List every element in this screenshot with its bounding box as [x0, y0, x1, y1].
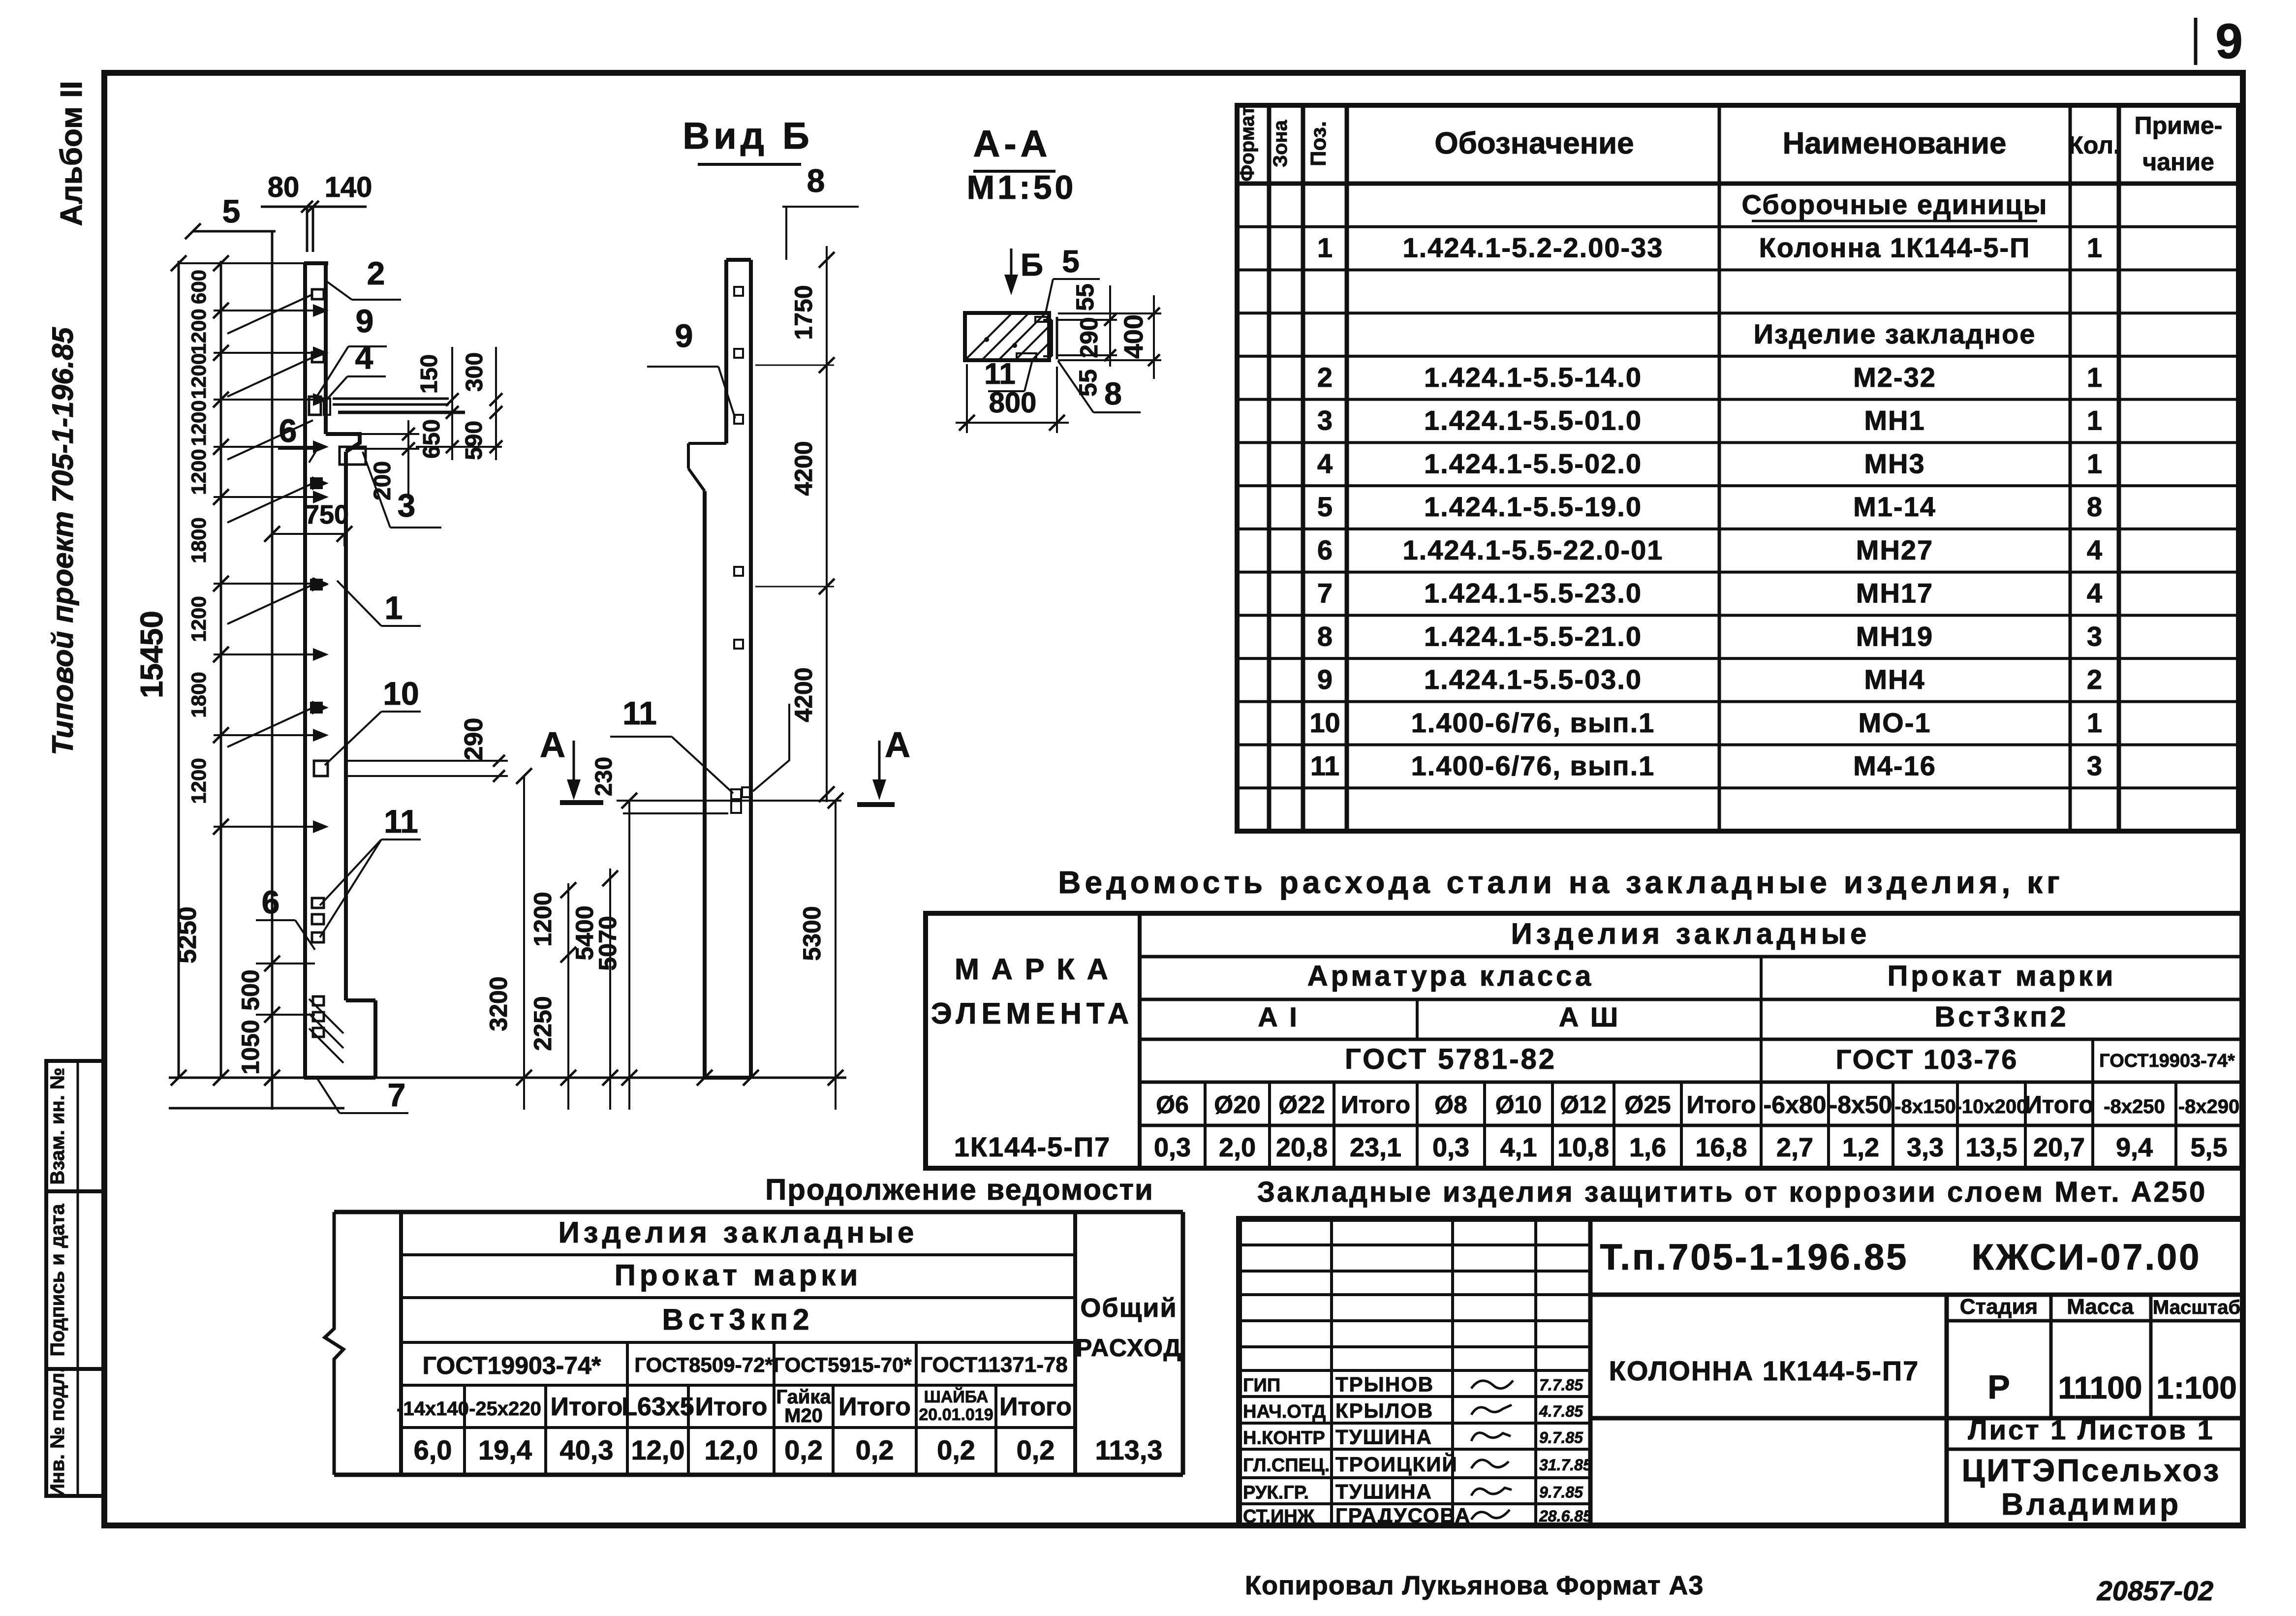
svg-text:5,5: 5,5 [2190, 1133, 2227, 1162]
svg-text:чание: чание [2142, 148, 2214, 176]
svg-text:20857-02: 20857-02 [2097, 1575, 2214, 1606]
svg-text:590: 590 [461, 421, 487, 460]
svg-text:Итого: Итого [1341, 1091, 1410, 1119]
svg-text:1800: 1800 [187, 517, 210, 563]
svg-text:1К144-5-П7: 1К144-5-П7 [954, 1131, 1111, 1162]
svg-text:9: 9 [675, 317, 693, 354]
svg-text:11: 11 [1310, 750, 1339, 781]
svg-text:3: 3 [1317, 405, 1333, 436]
svg-text:4200: 4200 [790, 667, 817, 722]
svg-text:Изделия закладные: Изделия закладные [1511, 917, 1871, 950]
svg-text:М2-32: М2-32 [1853, 362, 1936, 393]
svg-text:Итого: Итого [695, 1393, 768, 1421]
svg-text:МН3: МН3 [1864, 448, 1925, 479]
svg-text:ТУШИНА: ТУШИНА [1335, 1480, 1432, 1503]
svg-text:Прокат марки: Прокат марки [1888, 960, 2116, 992]
svg-text:Изделие закладное: Изделие закладное [1754, 318, 2036, 349]
svg-text:5300: 5300 [798, 906, 826, 961]
svg-text:7.7.85: 7.7.85 [1539, 1376, 1583, 1394]
svg-text:Копировал Лукьянова Ф: Копировал Лукьянова Формат А3 [1245, 1571, 1704, 1600]
svg-text:КОЛОННА 1К144-5-П7: КОЛОННА 1К144-5-П7 [1609, 1355, 1920, 1386]
svg-text:1.424.1-5.5-03.0: 1.424.1-5.5-03.0 [1424, 664, 1642, 695]
svg-text:800: 800 [989, 387, 1037, 419]
svg-text:2,7: 2,7 [1776, 1133, 1813, 1162]
svg-text:Ø12: Ø12 [1560, 1091, 1607, 1119]
svg-text:Т.п.705-1-196.85: Т.п.705-1-196.85 [1600, 1237, 1909, 1277]
svg-text:4: 4 [2087, 578, 2102, 609]
svg-text:19,4: 19,4 [478, 1434, 532, 1465]
svg-text:Стадия: Стадия [1960, 1295, 2038, 1319]
svg-text:1.424.1-5.2-2.00-33: 1.424.1-5.2-2.00-33 [1403, 232, 1664, 263]
svg-text:290: 290 [1075, 317, 1103, 358]
svg-text:Сборочные единицы: Сборочные единицы [1742, 189, 2048, 220]
svg-text:А: А [540, 725, 565, 765]
svg-text:Прокат марки: Прокат марки [615, 1259, 862, 1292]
svg-text:ГОСТ19903-74*: ГОСТ19903-74* [423, 1352, 601, 1379]
svg-text:Р: Р [1987, 1368, 2010, 1406]
svg-text:-8х290: -8х290 [2178, 1096, 2240, 1118]
svg-text:5: 5 [1062, 244, 1080, 279]
svg-text:1050: 1050 [237, 1020, 264, 1074]
svg-text:ГОСТ 5781-82: ГОСТ 5781-82 [1345, 1043, 1556, 1075]
svg-text:Общий: Общий [1080, 1293, 1177, 1323]
svg-text:Ø22: Ø22 [1278, 1091, 1325, 1119]
svg-text:1.424.1-5.5-21.0: 1.424.1-5.5-21.0 [1424, 621, 1642, 652]
svg-text:Ведомость расхода стали на зак: Ведомость расхода стали на закладные изд… [1058, 865, 2063, 900]
svg-text:12,0: 12,0 [705, 1434, 758, 1465]
svg-text:МН27: МН27 [1856, 534, 1933, 565]
svg-text:Н.КОНТР: Н.КОНТР [1243, 1428, 1325, 1449]
svg-text:Вид Б: Вид Б [683, 115, 813, 157]
svg-text:Б: Б [1021, 247, 1043, 282]
svg-text:1,6: 1,6 [1629, 1133, 1666, 1162]
svg-text:4,1: 4,1 [1500, 1133, 1537, 1162]
svg-text:Лист 1 Листов 1: Лист 1 Листов 1 [1968, 1414, 2214, 1445]
svg-text:500: 500 [237, 969, 264, 1010]
svg-text:13,5: 13,5 [1965, 1133, 2017, 1162]
svg-text:3: 3 [2087, 621, 2102, 652]
svg-text:1200: 1200 [529, 892, 557, 946]
svg-text:290: 290 [460, 718, 488, 761]
svg-text:1.424.1-5.5-22.0-01: 1.424.1-5.5-22.0-01 [1403, 534, 1664, 565]
svg-text:1: 1 [2087, 448, 2102, 479]
svg-text:1: 1 [2087, 232, 2102, 263]
svg-text:ГЛ.СПЕЦ.: ГЛ.СПЕЦ. [1243, 1455, 1330, 1476]
svg-text:Итого: Итого [2024, 1091, 2094, 1119]
svg-text:КРЫЛОВ: КРЫЛОВ [1335, 1399, 1433, 1422]
svg-text:9: 9 [356, 303, 374, 339]
svg-text:80: 80 [268, 171, 300, 203]
svg-text:1.424.1-5.5-14.0: 1.424.1-5.5-14.0 [1424, 362, 1642, 393]
svg-text:Взам. ин. №: Взам. ин. № [47, 1068, 68, 1185]
svg-text:-8х150: -8х150 [1894, 1096, 1956, 1118]
svg-text:РУК.ГР.: РУК.ГР. [1243, 1483, 1309, 1503]
svg-text:-6х80: -6х80 [1764, 1091, 1827, 1119]
svg-text:Итого: Итого [999, 1393, 1072, 1421]
svg-text:ГОСТ8509-72*: ГОСТ8509-72* [634, 1353, 773, 1376]
svg-text:1200: 1200 [187, 449, 210, 495]
svg-text:40,3: 40,3 [560, 1434, 614, 1465]
svg-text:3: 3 [398, 487, 416, 524]
svg-text:Арматура класса: Арматура класса [1307, 960, 1594, 992]
svg-text:ГОСТ11371-78: ГОСТ11371-78 [920, 1353, 1068, 1377]
svg-text:А Ш: А Ш [1559, 1001, 1620, 1032]
svg-text:МН1: МН1 [1864, 405, 1925, 436]
svg-text:3: 3 [2087, 750, 2102, 781]
svg-text:9: 9 [2215, 14, 2243, 69]
svg-text:31.7.85: 31.7.85 [1539, 1456, 1592, 1474]
svg-text:1: 1 [2087, 405, 2102, 436]
svg-text:4200: 4200 [790, 441, 817, 496]
svg-text:4: 4 [355, 339, 373, 375]
svg-text:0,2: 0,2 [856, 1434, 894, 1465]
svg-text:ГРАДУСОВА: ГРАДУСОВА [1335, 1504, 1471, 1527]
svg-text:М А Р К А: М А Р К А [955, 953, 1110, 986]
svg-text:0,2: 0,2 [937, 1434, 975, 1465]
svg-text:6: 6 [262, 884, 280, 920]
svg-text:Наименование: Наименование [1783, 126, 2007, 160]
svg-text:28.6.85: 28.6.85 [1539, 1507, 1592, 1525]
svg-text:8: 8 [1317, 621, 1333, 652]
svg-text:650: 650 [419, 419, 445, 459]
svg-text:23,1: 23,1 [1350, 1133, 1401, 1162]
svg-text:Типовой проект 705-1-196.85: Типовой проект 705-1-196.85 [46, 327, 79, 755]
svg-text:1:100: 1:100 [2156, 1370, 2237, 1405]
svg-text:Кол.: Кол. [2068, 131, 2120, 159]
svg-text:Масштаб: Масштаб [2153, 1297, 2240, 1318]
svg-text:1200: 1200 [187, 400, 210, 446]
svg-text:М20: М20 [784, 1405, 823, 1427]
svg-text:Закладные изделия защитить: Закладные изделия защитить от коррозии с… [1257, 1176, 2207, 1208]
svg-text:РАСХОД: РАСХОД [1076, 1334, 1182, 1362]
svg-text:-14х140: -14х140 [397, 1398, 469, 1420]
svg-text:55: 55 [1071, 283, 1099, 311]
svg-text:16,8: 16,8 [1695, 1133, 1747, 1162]
svg-text:МО-1: МО-1 [1859, 707, 1931, 738]
svg-text:Ø10: Ø10 [1495, 1091, 1542, 1119]
svg-text:2,0: 2,0 [1219, 1133, 1256, 1162]
svg-text:3200: 3200 [485, 976, 512, 1031]
svg-text:600: 600 [187, 270, 210, 304]
svg-text:КЖСИ-07.00: КЖСИ-07.00 [1972, 1237, 2202, 1277]
svg-text:2: 2 [367, 255, 385, 291]
svg-text:1800: 1800 [187, 672, 210, 717]
svg-text:1200: 1200 [187, 596, 210, 642]
svg-text:0,3: 0,3 [1154, 1133, 1191, 1162]
svg-text:ШАЙБА: ШАЙБА [924, 1387, 989, 1406]
svg-text:-8х50: -8х50 [1830, 1091, 1893, 1119]
svg-text:1: 1 [2087, 707, 2102, 738]
svg-text:300: 300 [462, 352, 488, 392]
svg-text:4: 4 [2087, 534, 2102, 565]
svg-text:Обозначение: Обозначение [1434, 126, 1634, 160]
svg-text:А I: А I [1258, 1001, 1299, 1032]
svg-text:1.424.1-5.5-19.0: 1.424.1-5.5-19.0 [1424, 491, 1642, 522]
svg-text:750: 750 [305, 500, 349, 529]
svg-text:МН4: МН4 [1864, 664, 1925, 695]
svg-text:1.400-6/76, вып.1: 1.400-6/76, вып.1 [1411, 750, 1655, 781]
svg-text:Итого: Итого [551, 1393, 623, 1421]
svg-text:Вст3кп2: Вст3кп2 [1934, 1001, 2069, 1033]
svg-text:10: 10 [1309, 707, 1340, 738]
svg-text:2: 2 [1317, 362, 1333, 393]
svg-text:2: 2 [2087, 664, 2102, 695]
svg-text:55: 55 [1074, 369, 1102, 397]
svg-text:4: 4 [1317, 448, 1333, 479]
svg-text:1200: 1200 [187, 353, 210, 399]
svg-text:МН19: МН19 [1856, 621, 1933, 652]
svg-text:1: 1 [1317, 232, 1333, 263]
svg-text:7: 7 [388, 1077, 406, 1113]
svg-text:20,8: 20,8 [1276, 1133, 1328, 1162]
svg-text:ЭЛЕМЕНТА: ЭЛЕМЕНТА [931, 997, 1134, 1030]
svg-text:М1:50: М1:50 [967, 169, 1077, 206]
svg-text:11: 11 [622, 695, 657, 731]
svg-text:Формат: Формат [1237, 106, 1258, 181]
svg-text:Поз.: Поз. [1306, 121, 1331, 166]
svg-text:20.01.019: 20.01.019 [919, 1405, 993, 1424]
svg-text:0,3: 0,3 [1432, 1133, 1469, 1162]
svg-text:230: 230 [591, 757, 617, 796]
svg-text:Инв. № подл.: Инв. № подл. [47, 1367, 68, 1497]
svg-text:ГОСТ 103-76: ГОСТ 103-76 [1836, 1044, 2018, 1075]
svg-text:А: А [885, 725, 910, 765]
svg-text:8: 8 [807, 162, 825, 199]
svg-text:Продолжение ведомости: Продолжение ведомости [765, 1173, 1154, 1206]
svg-text:А-А: А-А [973, 123, 1051, 165]
svg-text:1750: 1750 [790, 285, 817, 340]
svg-text:1.424.1-5.5-01.0: 1.424.1-5.5-01.0 [1424, 405, 1642, 436]
svg-text:4.7.85: 4.7.85 [1539, 1402, 1583, 1420]
svg-text:Зона: Зона [1270, 120, 1291, 167]
svg-text:5: 5 [1317, 491, 1333, 522]
svg-text:СТ.ИНЖ: СТ.ИНЖ [1243, 1506, 1315, 1527]
svg-text:113,3: 113,3 [1095, 1434, 1162, 1465]
svg-text:М1-14: М1-14 [1853, 491, 1936, 522]
svg-text:11100: 11100 [2058, 1370, 2142, 1405]
svg-text:1200: 1200 [187, 758, 210, 804]
svg-text:1.424.1-5.5-02.0: 1.424.1-5.5-02.0 [1424, 448, 1642, 479]
svg-text:Вст3кп2: Вст3кп2 [662, 1303, 814, 1336]
svg-text:Подпись и дата: Подпись и дата [47, 1204, 68, 1357]
svg-text:5070: 5070 [594, 916, 621, 970]
svg-text:ГИП: ГИП [1243, 1375, 1280, 1396]
svg-text:11: 11 [384, 803, 418, 839]
svg-text:Ø20: Ø20 [1214, 1091, 1261, 1119]
svg-text:20,7: 20,7 [2033, 1133, 2085, 1162]
svg-text:Ø6: Ø6 [1156, 1091, 1189, 1119]
svg-text:L63х5: L63х5 [621, 1393, 694, 1421]
svg-text:150: 150 [416, 354, 442, 394]
svg-text:Итого: Итого [838, 1393, 911, 1421]
svg-text:1: 1 [2087, 362, 2102, 393]
svg-text:-8х250: -8х250 [2104, 1096, 2165, 1118]
svg-text:-10х200: -10х200 [1955, 1096, 2028, 1118]
svg-text:15450: 15450 [134, 611, 169, 698]
svg-text:0,2: 0,2 [784, 1434, 823, 1465]
svg-text:9,4: 9,4 [2116, 1133, 2153, 1162]
svg-text:8: 8 [2087, 491, 2102, 522]
svg-text:ГОСТ19903-74*: ГОСТ19903-74* [2099, 1051, 2235, 1071]
svg-text:6,0: 6,0 [414, 1434, 452, 1465]
svg-text:5250: 5250 [173, 906, 202, 963]
svg-text:8: 8 [1104, 376, 1122, 411]
svg-text:М4-16: М4-16 [1853, 750, 1936, 781]
svg-text:Изделия закладные: Изделия закладные [558, 1216, 918, 1249]
svg-text:3,3: 3,3 [1907, 1133, 1944, 1162]
svg-text:Владимир: Владимир [2001, 1488, 2181, 1522]
svg-text:Альбом II: Альбом II [55, 81, 89, 226]
svg-text:5: 5 [222, 193, 241, 229]
svg-text:140: 140 [325, 171, 372, 203]
svg-text:ТРОИЦКИЙ: ТРОИЦКИЙ [1335, 1452, 1458, 1476]
svg-text:Ø25: Ø25 [1624, 1091, 1671, 1119]
svg-text:МН17: МН17 [1856, 578, 1933, 609]
svg-text:Итого: Итого [1686, 1091, 1756, 1119]
svg-text:10,8: 10,8 [1557, 1133, 1609, 1162]
svg-text:-25х220: -25х220 [469, 1398, 541, 1420]
svg-text:ТУШИНА: ТУШИНА [1335, 1426, 1432, 1449]
svg-text:0,2: 0,2 [1017, 1434, 1055, 1465]
svg-text:9.7.85: 9.7.85 [1539, 1429, 1583, 1447]
svg-text:10: 10 [383, 675, 419, 712]
svg-text:1200: 1200 [187, 309, 210, 354]
svg-text:Приме-: Приме- [2135, 112, 2223, 139]
svg-text:Масса: Масса [2067, 1295, 2134, 1319]
svg-text:6: 6 [279, 412, 297, 449]
svg-text:2250: 2250 [529, 996, 557, 1051]
svg-text:1.424.1-5.5-23.0: 1.424.1-5.5-23.0 [1424, 578, 1642, 609]
svg-text:Колонна 1К144-5-П: Колонна 1К144-5-П [1759, 232, 2031, 263]
svg-text:1.400-6/76, вып.1: 1.400-6/76, вып.1 [1411, 707, 1655, 738]
svg-text:9: 9 [1317, 664, 1333, 695]
svg-text:НАЧ.ОТД: НАЧ.ОТД [1243, 1401, 1326, 1422]
svg-text:ГОСТ5915-70*: ГОСТ5915-70* [773, 1353, 912, 1376]
svg-text:11: 11 [984, 357, 1015, 390]
svg-text:7: 7 [1317, 578, 1333, 609]
svg-text:400: 400 [1119, 314, 1148, 359]
svg-text:1,2: 1,2 [1842, 1133, 1879, 1162]
svg-text:ТРЫНОВ: ТРЫНОВ [1335, 1373, 1434, 1396]
svg-text:Ø8: Ø8 [1434, 1091, 1467, 1119]
svg-text:12,0: 12,0 [631, 1434, 685, 1465]
svg-text:6: 6 [1317, 534, 1333, 565]
svg-text:1: 1 [385, 590, 403, 626]
svg-text:ЦИТЭПсельхоз: ЦИТЭПсельхоз [1962, 1453, 2221, 1488]
svg-text:9.7.85: 9.7.85 [1539, 1484, 1583, 1501]
